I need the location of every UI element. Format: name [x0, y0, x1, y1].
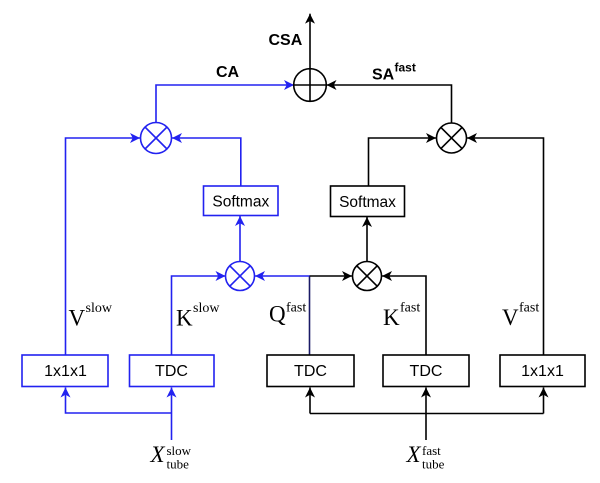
- label V-fast: [502, 301, 539, 331]
- svg-text:Softmax: Softmax: [339, 194, 396, 211]
- wire black multiply bottom up into black Softmax: [366, 217, 368, 262]
- box slow TDC: [130, 355, 215, 387]
- label X-tube-slow: [150, 442, 192, 471]
- box blue Softmax: [204, 186, 279, 216]
- svg-text:TDC: TDC: [410, 363, 443, 380]
- svg-text:1x1x1: 1x1x1: [521, 363, 564, 380]
- svg-text:V: V: [502, 305, 519, 330]
- wire Q-fast shared vertical from fast TDC top: [309, 276, 311, 355]
- label Q-fast: [269, 301, 306, 327]
- label X-tube-fast: [406, 442, 445, 471]
- svg-text:V: V: [69, 306, 86, 331]
- wire slow input branch left then up into 1x1x1: [66, 388, 172, 414]
- svg-text:tube: tube: [167, 456, 190, 471]
- svg-text:TDC: TDC: [294, 363, 327, 380]
- svg-text:X: X: [150, 442, 166, 467]
- wire slow input stem from X-tube-slow up into TDC: [171, 388, 173, 441]
- wire fast input stem from X-tube-fast up into middle TDC: [425, 388, 427, 441]
- svg-text:CA: CA: [216, 64, 240, 81]
- plus node horizontal bar: [294, 84, 327, 86]
- wire V-fast: fast 1x1x1 top up then left into black multiply top: [467, 138, 544, 355]
- box fast 1x1x1: [500, 355, 585, 387]
- wire black Softmax output up then right into black multiply top: [369, 138, 437, 187]
- svg-text:CSA: CSA: [269, 32, 303, 49]
- adder node CSA circle-plus: [294, 69, 327, 102]
- label V-slow: [69, 301, 113, 331]
- svg-text:Q: Q: [269, 302, 286, 327]
- wire K-slow: TDC top up then right into blue multiply bottom: [172, 276, 226, 355]
- label K-fast: [383, 301, 420, 331]
- wire Q-fast blue branch left into blue multiply bottom: [255, 275, 310, 277]
- svg-text:slow: slow: [86, 301, 113, 316]
- svg-text:SA: SA: [372, 67, 395, 84]
- multiply node black bottom: [353, 262, 382, 291]
- box slow 1x1x1: [22, 355, 108, 387]
- svg-text:fast: fast: [286, 301, 306, 316]
- multiply node blue bottom: [226, 262, 255, 291]
- wire CSA output arrow up from plus node: [309, 14, 311, 102]
- svg-text:X: X: [406, 442, 422, 467]
- wire blue Softmax output up then left into blue multiply top: [172, 138, 241, 186]
- box fast TDC K: [383, 355, 469, 387]
- wire fast input right branch up into 1x1x1: [543, 388, 545, 414]
- wire fast input horizontal branch: [310, 413, 544, 415]
- multiply node blue top: [141, 123, 172, 154]
- label SA-fast: [372, 61, 416, 84]
- svg-text:fast: fast: [400, 301, 420, 316]
- svg-text:TDC: TDC: [155, 363, 188, 380]
- wire Q-fast black branch right into black multiply bottom: [310, 275, 353, 277]
- wire CA: blue multiply top up then right into plus node: [156, 85, 294, 123]
- svg-text:1x1x1: 1x1x1: [44, 363, 87, 380]
- svg-text:fast: fast: [395, 61, 416, 75]
- label K-slow: [176, 301, 220, 331]
- svg-text:fast: fast: [519, 301, 539, 316]
- svg-text:K: K: [176, 306, 193, 331]
- box fast TDC Q: [267, 355, 354, 387]
- wire SA-fast: black multiply top up then left into plus node: [327, 85, 452, 123]
- multiply node black top: [437, 123, 467, 153]
- svg-text:slow: slow: [193, 301, 220, 316]
- wire blue multiply bottom up into blue Softmax: [239, 216, 241, 262]
- svg-text:tube: tube: [422, 456, 445, 471]
- wire V-slow: 1x1x1 top up and right into blue multiply top: [66, 138, 141, 355]
- svg-text:K: K: [383, 305, 400, 330]
- box black Softmax: [331, 186, 405, 217]
- svg-text:Softmax: Softmax: [212, 194, 269, 211]
- wire K-fast: TDC top up then left into black multiply bottom: [382, 276, 426, 355]
- wire fast input left branch up into TDC: [309, 388, 311, 414]
